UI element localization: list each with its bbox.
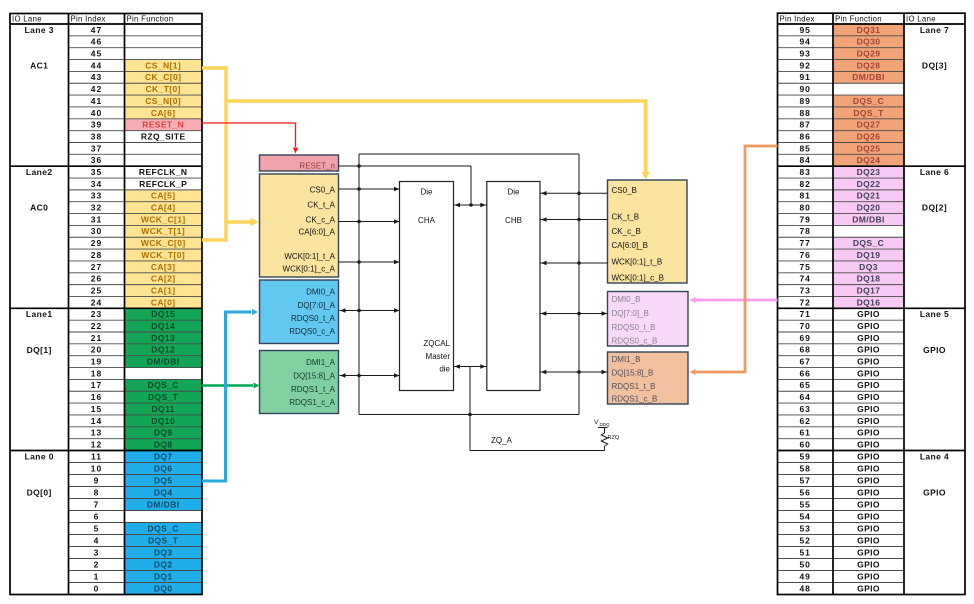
svg-text:GPIO: GPIO (857, 571, 880, 581)
svg-text:DQ13: DQ13 (151, 333, 175, 343)
svg-text:Die: Die (420, 188, 433, 197)
svg-text:53: 53 (799, 523, 810, 533)
svg-text:RZQ: RZQ (608, 435, 620, 441)
svg-text:REFCLK_P: REFCLK_P (139, 179, 187, 189)
svg-text:RDQS0_c_A: RDQS0_c_A (289, 327, 335, 336)
svg-text:60: 60 (799, 439, 810, 449)
svg-text:42: 42 (91, 84, 102, 94)
svg-text:44: 44 (91, 60, 102, 70)
svg-text:RZQ_SITE: RZQ_SITE (141, 131, 186, 141)
svg-text:CA[1]: CA[1] (151, 285, 176, 295)
svg-text:88: 88 (799, 108, 810, 118)
svg-text:ZQ_A: ZQ_A (491, 436, 513, 445)
svg-text:74: 74 (799, 274, 810, 284)
svg-text:WCK_C[0]: WCK_C[0] (141, 238, 186, 248)
svg-text:34: 34 (91, 179, 102, 189)
svg-text:81: 81 (799, 191, 810, 201)
svg-text:39: 39 (91, 120, 102, 130)
svg-text:DQ27: DQ27 (857, 120, 881, 130)
svg-text:GPIO: GPIO (857, 511, 880, 521)
svg-text:GPIO: GPIO (857, 547, 880, 557)
svg-text:WCK[0:1]_t_B: WCK[0:1]_t_B (612, 258, 663, 267)
svg-text:RDQS1_t_B: RDQS1_t_B (612, 382, 656, 391)
svg-text:64: 64 (799, 392, 810, 402)
svg-text:Lane1: Lane1 (26, 309, 53, 319)
svg-text:26: 26 (91, 274, 102, 284)
svg-text:GPIO: GPIO (857, 451, 880, 461)
svg-text:DQ2: DQ2 (154, 559, 173, 569)
svg-text:GPIO: GPIO (857, 439, 880, 449)
svg-text:14: 14 (91, 416, 102, 426)
svg-text:57: 57 (799, 475, 810, 485)
svg-text:94: 94 (799, 37, 810, 47)
svg-text:DQ7: DQ7 (154, 451, 173, 461)
svg-text:DQS_C: DQS_C (853, 238, 884, 248)
svg-text:GPIO: GPIO (857, 463, 880, 473)
svg-text:GPIO: GPIO (857, 535, 880, 545)
svg-text:DQ15: DQ15 (151, 309, 175, 319)
svg-text:WCK_T[1]: WCK_T[1] (141, 226, 185, 236)
svg-text:4: 4 (94, 535, 100, 545)
svg-text:CK_C[0]: CK_C[0] (145, 72, 181, 82)
svg-text:Lane 6: Lane 6 (920, 167, 949, 177)
svg-text:DQ[15:8]_B: DQ[15:8]_B (612, 369, 654, 378)
svg-text:67: 67 (799, 357, 810, 367)
svg-text:17: 17 (91, 380, 102, 390)
svg-text:38: 38 (91, 131, 102, 141)
svg-text:12: 12 (91, 439, 102, 449)
svg-text:DQ23: DQ23 (857, 167, 881, 177)
svg-text:Master: Master (426, 352, 451, 361)
svg-text:CHB: CHB (505, 216, 522, 225)
svg-text:DQ19: DQ19 (857, 250, 881, 260)
svg-text:5: 5 (94, 523, 100, 533)
svg-text:51: 51 (799, 547, 810, 557)
svg-text:1: 1 (94, 571, 100, 581)
svg-text:86: 86 (799, 131, 810, 141)
svg-text:54: 54 (799, 511, 810, 521)
svg-text:52: 52 (799, 535, 810, 545)
svg-text:DQ26: DQ26 (857, 131, 881, 141)
svg-text:CA[6:0]_A: CA[6:0]_A (299, 228, 336, 237)
svg-text:IO Lane: IO Lane (12, 15, 42, 24)
svg-text:72: 72 (799, 297, 810, 307)
svg-text:29: 29 (91, 238, 102, 248)
svg-text:WCK[0:1]_c_B: WCK[0:1]_c_B (612, 274, 664, 283)
svg-text:DQ5: DQ5 (154, 475, 173, 485)
svg-text:55: 55 (799, 499, 810, 509)
svg-text:91: 91 (799, 72, 810, 82)
svg-text:DM/DBI: DM/DBI (147, 357, 180, 367)
svg-text:11: 11 (91, 451, 102, 461)
svg-text:33: 33 (91, 191, 102, 201)
svg-text:DQ[1]: DQ[1] (27, 345, 52, 355)
svg-text:WCK[0:1]_t_A: WCK[0:1]_t_A (284, 252, 335, 261)
svg-text:GPIO: GPIO (857, 499, 880, 509)
svg-text:DQ28: DQ28 (857, 60, 881, 70)
svg-text:Pin Index: Pin Index (71, 15, 106, 24)
svg-text:73: 73 (799, 285, 810, 295)
svg-text:GPIO: GPIO (857, 428, 880, 438)
svg-text:DQ14: DQ14 (151, 321, 175, 331)
svg-text:23: 23 (91, 309, 102, 319)
svg-text:GPIO: GPIO (923, 488, 946, 498)
svg-text:RDQS0_c_B: RDQS0_c_B (612, 337, 658, 346)
svg-text:DQ[3]: DQ[3] (922, 60, 947, 70)
svg-text:45: 45 (91, 49, 102, 59)
svg-text:Pin Function: Pin Function (835, 14, 882, 23)
svg-text:10: 10 (91, 463, 102, 473)
svg-text:RDQS0_t_A: RDQS0_t_A (291, 314, 336, 323)
svg-text:69: 69 (799, 333, 810, 343)
svg-text:GPIO: GPIO (857, 559, 880, 569)
svg-text:28: 28 (91, 250, 102, 260)
svg-text:DQS_T: DQS_T (148, 392, 179, 402)
svg-text:DQ0: DQ0 (154, 583, 173, 593)
svg-text:63: 63 (799, 404, 810, 414)
svg-text:DQ1: DQ1 (154, 571, 173, 581)
svg-text:DQ[0]: DQ[0] (27, 488, 52, 498)
svg-text:DQ29: DQ29 (857, 49, 881, 59)
svg-text:DMI1_A: DMI1_A (306, 358, 336, 367)
svg-text:RDQS0_t_B: RDQS0_t_B (612, 323, 656, 332)
svg-text:Lane 0: Lane 0 (25, 452, 54, 462)
svg-text:DM/DBI: DM/DBI (147, 499, 180, 509)
svg-text:Lane 7: Lane 7 (920, 25, 949, 35)
svg-text:90: 90 (799, 84, 810, 94)
svg-text:DQ[15:8]_A: DQ[15:8]_A (293, 372, 335, 381)
svg-text:13: 13 (91, 428, 102, 438)
svg-text:GPIO: GPIO (857, 416, 880, 426)
svg-text:DQS_T: DQS_T (853, 108, 884, 118)
svg-text:DQ10: DQ10 (151, 416, 175, 426)
svg-text:61: 61 (799, 428, 810, 438)
svg-text:WCK_C[1]: WCK_C[1] (141, 214, 186, 224)
svg-text:RDQS1_t_A: RDQS1_t_A (291, 385, 336, 394)
svg-text:CK_t_A: CK_t_A (307, 201, 335, 210)
svg-text:84: 84 (799, 155, 810, 165)
svg-text:GPIO: GPIO (857, 321, 880, 331)
svg-text:CHA: CHA (418, 216, 436, 225)
svg-text:31: 31 (91, 214, 102, 224)
svg-text:7: 7 (94, 499, 100, 509)
svg-text:CA[3]: CA[3] (151, 262, 176, 272)
svg-text:19: 19 (91, 357, 102, 367)
svg-text:DQS_C: DQS_C (148, 380, 179, 390)
svg-text:40: 40 (91, 108, 102, 118)
svg-text:DMI0_B: DMI0_B (612, 295, 641, 304)
svg-text:WCK_T[0]: WCK_T[0] (141, 250, 185, 260)
svg-text:V: V (594, 419, 599, 426)
svg-text:68: 68 (799, 345, 810, 355)
svg-text:CA[6]: CA[6] (151, 108, 176, 118)
svg-text:0: 0 (94, 583, 100, 593)
svg-text:27: 27 (91, 262, 102, 272)
svg-text:GPIO: GPIO (857, 475, 880, 485)
svg-text:48: 48 (799, 583, 810, 593)
svg-text:DQ9: DQ9 (154, 428, 173, 438)
svg-text:92: 92 (799, 60, 810, 70)
svg-text:DQ24: DQ24 (857, 155, 881, 165)
svg-text:CS0_B: CS0_B (612, 186, 637, 195)
svg-text:DQ16: DQ16 (857, 297, 881, 307)
svg-text:RESET_N: RESET_N (142, 120, 184, 130)
svg-text:DQ4: DQ4 (154, 487, 173, 497)
svg-text:75: 75 (799, 262, 810, 272)
svg-text:CA[0]: CA[0] (151, 297, 176, 307)
svg-text:DQS_C: DQS_C (148, 523, 179, 533)
svg-text:DQ21: DQ21 (857, 191, 881, 201)
svg-text:CS_N[0]: CS_N[0] (145, 96, 181, 106)
svg-text:CK_c_B: CK_c_B (612, 227, 641, 236)
svg-text:DQ3: DQ3 (859, 262, 878, 272)
svg-text:GPIO: GPIO (857, 404, 880, 414)
svg-text:16: 16 (91, 392, 102, 402)
svg-text:Lane 3: Lane 3 (25, 25, 54, 35)
svg-text:87: 87 (799, 120, 810, 130)
svg-text:83: 83 (799, 167, 810, 177)
svg-text:25: 25 (91, 285, 102, 295)
svg-text:Pin Index: Pin Index (780, 14, 815, 23)
svg-text:AC0: AC0 (30, 203, 48, 213)
svg-text:DMI1_B: DMI1_B (612, 355, 641, 364)
svg-text:20: 20 (91, 345, 102, 355)
svg-text:DQS_C: DQS_C (853, 96, 884, 106)
svg-text:AC1: AC1 (30, 60, 48, 70)
svg-text:RESET_n: RESET_n (299, 162, 335, 171)
svg-text:DQ22: DQ22 (857, 179, 881, 189)
svg-text:43: 43 (91, 72, 102, 82)
svg-text:85: 85 (799, 143, 810, 153)
svg-text:65: 65 (799, 380, 810, 390)
svg-text:DDQ: DDQ (600, 422, 610, 427)
svg-text:Lane 5: Lane 5 (920, 309, 949, 319)
svg-text:50: 50 (799, 559, 810, 569)
svg-text:GPIO: GPIO (857, 333, 880, 343)
svg-text:GPIO: GPIO (857, 357, 880, 367)
svg-text:GPIO: GPIO (857, 583, 880, 593)
svg-text:66: 66 (799, 368, 810, 378)
svg-text:REFCLK_N: REFCLK_N (139, 167, 188, 177)
svg-text:70: 70 (799, 321, 810, 331)
svg-text:DQ6: DQ6 (154, 463, 173, 473)
svg-text:CK_t_B: CK_t_B (612, 213, 640, 222)
svg-text:21: 21 (91, 333, 102, 343)
svg-text:93: 93 (799, 49, 810, 59)
svg-text:DQ[7:0]_A: DQ[7:0]_A (298, 301, 336, 310)
svg-text:CS_N[1]: CS_N[1] (145, 60, 181, 70)
svg-text:DQ11: DQ11 (152, 404, 175, 414)
svg-text:3: 3 (94, 547, 100, 557)
svg-text:RDQS1_c_A: RDQS1_c_A (289, 398, 335, 407)
svg-text:59: 59 (799, 451, 810, 461)
svg-text:CS0_A: CS0_A (310, 186, 336, 195)
svg-text:6: 6 (94, 511, 100, 521)
svg-text:DQ17: DQ17 (857, 285, 881, 295)
svg-text:71: 71 (799, 309, 810, 319)
svg-text:DQ8: DQ8 (154, 439, 173, 449)
svg-text:46: 46 (91, 37, 102, 47)
svg-text:78: 78 (799, 226, 810, 236)
svg-text:DQ[2]: DQ[2] (922, 203, 947, 213)
svg-text:Pin Function: Pin Function (127, 15, 174, 24)
svg-text:DQ30: DQ30 (857, 37, 881, 47)
svg-text:DQ18: DQ18 (857, 274, 881, 284)
svg-text:WCK[0:1]_c_A: WCK[0:1]_c_A (283, 265, 336, 274)
svg-text:58: 58 (799, 463, 810, 473)
svg-text:DM/DBI: DM/DBI (852, 72, 885, 82)
svg-text:IO Lane: IO Lane (906, 14, 936, 23)
svg-text:DQ[7:0]_B: DQ[7:0]_B (612, 309, 649, 318)
svg-text:DQ31: DQ31 (857, 25, 881, 35)
svg-text:GPIO: GPIO (923, 345, 946, 355)
svg-text:77: 77 (799, 238, 810, 248)
svg-text:CA[2]: CA[2] (151, 274, 176, 284)
svg-text:GPIO: GPIO (857, 523, 880, 533)
svg-text:CA[5]: CA[5] (151, 191, 176, 201)
svg-text:CK_c_A: CK_c_A (306, 216, 336, 225)
svg-text:DQS_T: DQS_T (148, 535, 179, 545)
svg-text:89: 89 (799, 96, 810, 106)
svg-text:DQ20: DQ20 (857, 203, 881, 213)
svg-text:GPIO: GPIO (857, 380, 880, 390)
svg-text:CA[6:0]_B: CA[6:0]_B (612, 241, 648, 250)
svg-text:DQ3: DQ3 (154, 547, 173, 557)
svg-text:Die: Die (507, 188, 520, 197)
svg-text:76: 76 (799, 250, 810, 260)
svg-text:82: 82 (799, 179, 810, 189)
svg-text:8: 8 (94, 487, 100, 497)
svg-text:GPIO: GPIO (857, 487, 880, 497)
svg-text:GPIO: GPIO (857, 368, 880, 378)
svg-text:CK_T[0]: CK_T[0] (146, 84, 181, 94)
svg-text:9: 9 (94, 475, 100, 485)
svg-text:DQ12: DQ12 (151, 345, 175, 355)
svg-text:41: 41 (91, 96, 102, 106)
svg-text:35: 35 (91, 167, 102, 177)
svg-text:62: 62 (799, 416, 810, 426)
svg-text:Lane2: Lane2 (26, 167, 53, 177)
svg-text:ZQCAL: ZQCAL (423, 339, 450, 348)
svg-text:DM/DBI: DM/DBI (852, 214, 885, 224)
svg-text:24: 24 (91, 297, 102, 307)
svg-text:DQ25: DQ25 (857, 143, 881, 153)
svg-text:32: 32 (91, 203, 102, 213)
svg-text:30: 30 (91, 226, 102, 236)
svg-text:47: 47 (91, 25, 102, 35)
svg-text:GPIO: GPIO (857, 309, 880, 319)
svg-text:2: 2 (94, 559, 100, 569)
svg-text:RDQS1_c_B: RDQS1_c_B (612, 395, 658, 404)
svg-text:79: 79 (799, 214, 810, 224)
svg-text:18: 18 (91, 368, 102, 378)
svg-text:36: 36 (91, 155, 102, 165)
svg-text:Lane 4: Lane 4 (920, 452, 949, 462)
svg-text:49: 49 (799, 571, 810, 581)
svg-text:56: 56 (799, 487, 810, 497)
svg-text:DMI0_A: DMI0_A (306, 288, 336, 297)
svg-text:80: 80 (799, 203, 810, 213)
svg-text:CA[4]: CA[4] (151, 203, 176, 213)
svg-text:GPIO: GPIO (857, 345, 880, 355)
svg-text:95: 95 (799, 25, 810, 35)
svg-text:37: 37 (91, 143, 102, 153)
svg-text:GPIO: GPIO (857, 392, 880, 402)
svg-text:15: 15 (91, 404, 102, 414)
svg-text:die: die (439, 365, 450, 374)
svg-text:22: 22 (91, 321, 102, 331)
